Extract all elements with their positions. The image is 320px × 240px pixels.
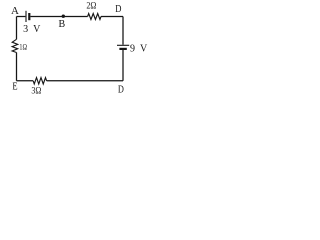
battery 9V short plate xyxy=(119,48,126,50)
battery 3V long plate xyxy=(25,11,27,22)
wire resistor 3ohm to corner E xyxy=(17,80,34,82)
svg-text:E: E xyxy=(12,82,17,93)
resistor 3ohm zigzag xyxy=(33,78,46,84)
battery 9V long plate xyxy=(117,44,129,46)
bottom wire corner to resistor 3ohm xyxy=(47,80,123,82)
svg-text:9: 9 xyxy=(130,43,135,54)
wire E up to resistor 1ohm xyxy=(16,53,18,81)
svg-text:B: B xyxy=(59,19,66,30)
wire A to battery 3V xyxy=(17,16,26,18)
resistor 1ohm zigzag xyxy=(12,39,18,52)
wire battery 9V to bottom corner xyxy=(122,50,124,81)
svg-text:D: D xyxy=(115,4,121,15)
wire battery to resistor 2ohm through node B xyxy=(31,16,88,18)
svg-text:2Ω: 2Ω xyxy=(86,1,96,12)
svg-text:1Ω: 1Ω xyxy=(19,43,27,52)
svg-text:V: V xyxy=(140,43,148,54)
wire resistor 1ohm to corner A xyxy=(16,17,18,40)
svg-text:3: 3 xyxy=(23,24,28,35)
wire D down to battery 9V xyxy=(122,17,124,45)
wire resistor to corner D xyxy=(101,16,123,18)
resistor R 2ohm zigzag xyxy=(88,14,101,20)
svg-text:A: A xyxy=(11,5,19,17)
node B junction dot xyxy=(62,15,65,18)
svg-text:V: V xyxy=(33,24,41,35)
svg-text:D: D xyxy=(118,85,124,96)
battery 3V short plate xyxy=(28,13,30,20)
svg-text:3Ω: 3Ω xyxy=(31,85,41,96)
